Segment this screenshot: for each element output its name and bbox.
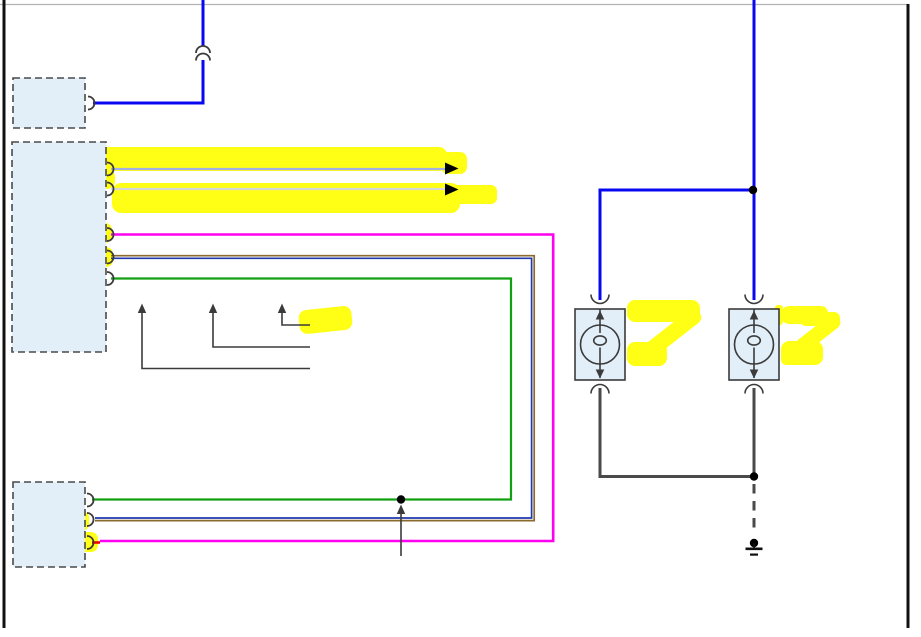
left reversing lamp box bbox=[729, 309, 779, 380]
wire BLK left lamp bbox=[753, 388, 756, 477]
junction S173 bbox=[397, 495, 405, 503]
C175T variant arrow line bbox=[213, 312, 310, 347]
right lamp internals bbox=[581, 295, 620, 394]
highlight LEFT LAMP word bbox=[781, 341, 823, 365]
PCM pin arc TRP bbox=[107, 228, 114, 241]
wire BLU S403 branch bbox=[600, 190, 752, 300]
mirror module box bbox=[13, 78, 85, 128]
PCM pin arc HS CAN - bbox=[107, 183, 114, 196]
highlight 5.0L bbox=[298, 305, 353, 334]
wire BLU mirror vertical lower bbox=[202, 60, 205, 105]
highlight LEFT diagonal bbox=[783, 312, 843, 363]
wire BLU of BRN/BLU bbox=[95, 258, 532, 518]
junction S403 bbox=[749, 186, 757, 194]
wire BRN of BRN/BLU bbox=[95, 256, 534, 521]
highlight RIGHT lamp diagonal bbox=[636, 306, 704, 364]
right reversing lamp box bbox=[575, 309, 625, 380]
wire VIO loop bbox=[100, 235, 553, 542]
6R80 pin arc TR GND bbox=[87, 513, 94, 526]
wire RED stub at TRP bbox=[92, 541, 100, 544]
mirror pin arc bbox=[88, 97, 95, 110]
highlight 6R80 TRP bbox=[43, 532, 98, 552]
6R80 pin arc SIGRTN bbox=[87, 494, 94, 507]
ground G401 bbox=[750, 539, 758, 547]
S111 arrow bbox=[400, 513, 402, 556]
PCM pin arc SIGRTN bbox=[107, 272, 114, 285]
highlight SIGRTN label bbox=[36, 269, 104, 290]
highlight RIGHT lamp label top band bbox=[627, 300, 700, 322]
wire WHT/BLU bbox=[111, 168, 446, 170]
right page border bar bbox=[907, 4, 910, 628]
highlight LEFT top band bbox=[782, 306, 828, 324]
highlight 6R80 TR GND bbox=[22, 511, 89, 531]
left lamp internals bbox=[735, 295, 774, 394]
highlight TRP label bbox=[58, 223, 112, 243]
wire WHT bbox=[111, 188, 446, 190]
highlight HS CAN + label bbox=[16, 155, 114, 177]
highlight row2 band over WHT wire and C-labels bbox=[112, 183, 460, 213]
C1381T variant arrow line bbox=[282, 312, 310, 325]
wire BLU mirror horizontal bbox=[93, 102, 203, 105]
PCM pin arc HS CAN + bbox=[107, 163, 114, 176]
PCM pin arc TR GND bbox=[107, 251, 114, 264]
junction S404 bbox=[750, 472, 758, 480]
highlight HS CAN - label bbox=[53, 169, 115, 189]
highlight LEFT bar bbox=[775, 305, 783, 325]
top hairline bbox=[0, 4, 909, 6]
wire BLU mirror vertical upper bbox=[202, 0, 205, 46]
connector C314 arcs bbox=[196, 46, 210, 53]
highlight HS CAN + row band bbox=[14, 147, 447, 171]
left page border bar bbox=[3, 0, 6, 628]
highlight blob above arrows bbox=[441, 152, 467, 174]
highlight RIGHT LAMP word bbox=[627, 342, 667, 366]
6R80 box bbox=[13, 482, 85, 567]
highlight TR GND label bbox=[40, 247, 113, 267]
wire BLU right main vertical bbox=[753, 0, 756, 300]
wire GRN/WHT loop bbox=[92, 279, 511, 500]
C1551E variant arrow line bbox=[142, 312, 310, 369]
arrow VDB04 bbox=[445, 163, 459, 175]
wire BLK dashed to ground bbox=[753, 484, 756, 533]
highlight 6R80 SIGRTN bbox=[25, 490, 85, 509]
6R80 pin arc TRP bbox=[87, 536, 94, 549]
highlight SYSTEM bbox=[440, 185, 497, 204]
wire BLK right lamp to S404 bbox=[600, 388, 750, 477]
PCM box bbox=[12, 142, 106, 352]
arrow VDB05 bbox=[445, 184, 459, 196]
